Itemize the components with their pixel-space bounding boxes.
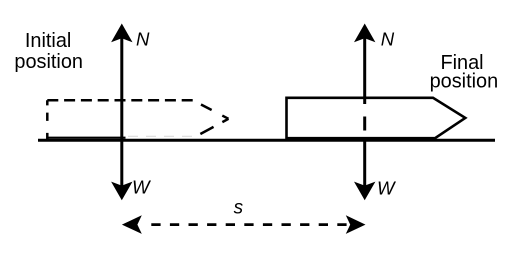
svg-text:W: W — [132, 177, 152, 198]
svg-text:N: N — [136, 28, 150, 49]
arrow N right shaft hidden dash inside box — [363, 117, 366, 131]
displacement arrow s — [122, 215, 366, 234]
arrow N right head — [354, 24, 375, 43]
svg-text:W: W — [377, 177, 397, 198]
svg-text:N: N — [381, 28, 395, 49]
label Initial position — [14, 30, 83, 73]
label Final position — [430, 52, 499, 92]
dashed box initial position — [47, 100, 228, 139]
ground line — [38, 139, 495, 142]
dashed box nose lower slant — [193, 119, 229, 138]
arrow W right — [354, 140, 375, 200]
dashed box top edge — [47, 99, 192, 102]
dashed box left edge — [46, 100, 49, 139]
dashed box bottom edge — [47, 137, 125, 139]
svg-text:Initial: Initial — [25, 30, 71, 52]
solid box final position — [287, 98, 466, 138]
dashed box nose upper slant — [193, 100, 229, 119]
arrow N right — [354, 24, 375, 141]
arrow N left — [111, 24, 132, 141]
svg-text:position: position — [430, 70, 499, 92]
arrow N right shaft — [363, 37, 366, 104]
svg-text:position: position — [14, 51, 83, 73]
arrow W left — [111, 140, 132, 200]
svg-text:s: s — [234, 198, 244, 219]
